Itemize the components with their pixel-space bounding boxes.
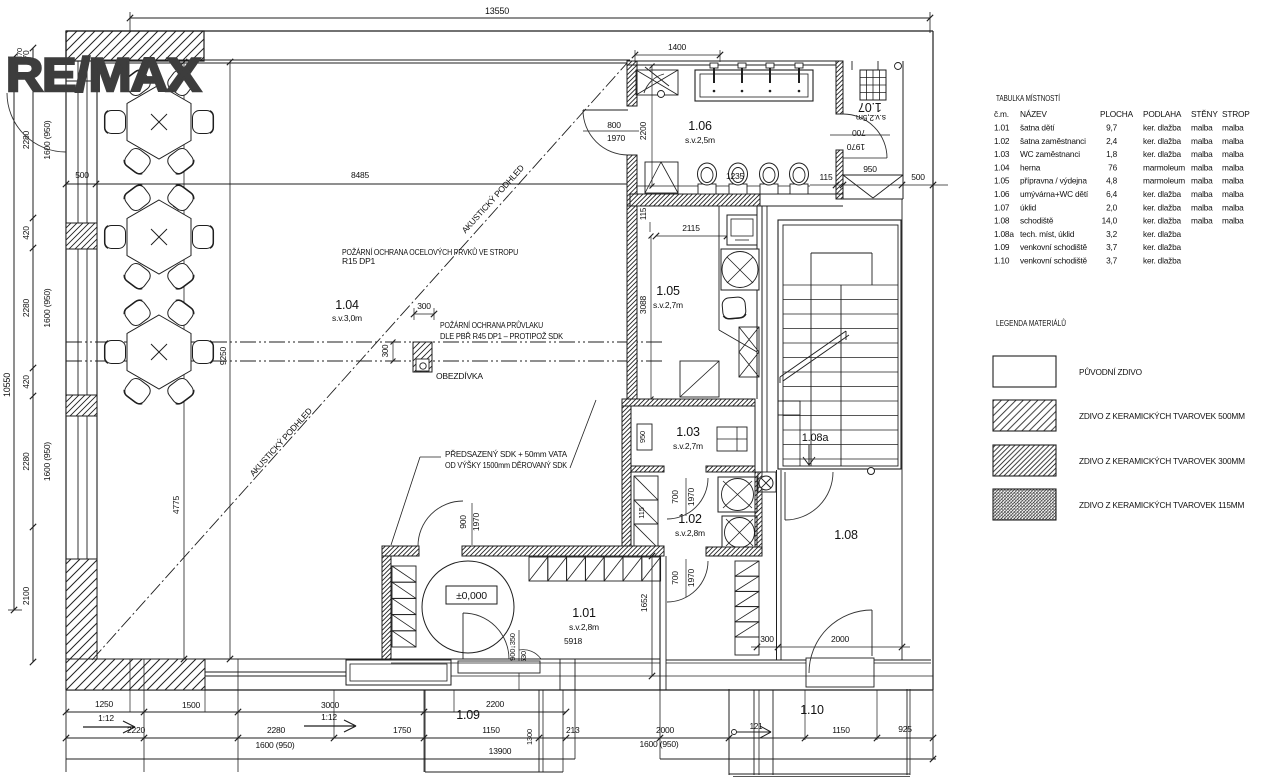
svg-text:WC zaměstnanci: WC zaměstnanci [1020,149,1080,159]
svg-text:±0,000: ±0,000 [456,590,487,602]
lockers top 1.01 [529,557,548,581]
svg-text:přípravna / výdejna: přípravna / výdejna [1020,176,1087,186]
svg-text:1,8: 1,8 [1106,149,1118,159]
dim chain left segments [32,48,34,662]
svg-text:s.v.3,0m: s.v.3,0m [332,313,362,323]
legend swatch PŮVODNÍ ZDIVO [993,356,1056,387]
door sill triangle 1.07 [843,174,903,176]
svg-text:1600 (950): 1600 (950) [42,442,52,481]
svg-text:s.v.2,5m: s.v.2,5m [685,135,715,145]
svg-text:1652: 1652 [639,593,649,612]
tap 3 [769,67,771,83]
trough sink 1.06 [695,70,813,101]
svg-text:13900: 13900 [489,746,512,756]
svg-text:1.08: 1.08 [994,216,1010,226]
svg-text:malba: malba [1222,149,1244,159]
svg-text:1.06: 1.06 [994,189,1010,199]
hex table 1 chairs [105,111,126,134]
svg-text:1.08a: 1.08a [802,432,830,444]
legend swatch ZDIVO Z KERAMICKÝCH TVAROVEK 500MM [993,400,1056,431]
dim 8485 interior [96,183,630,185]
door arc to 1.06 [583,109,628,111]
bottom wall hatch run [66,659,205,690]
svg-text:1150: 1150 [482,725,500,735]
svg-text:LEGENDA MATERIÁLŮ: LEGENDA MATERIÁLŮ [996,317,1066,328]
legend swatch ZDIVO Z KERAMICKÝCH TVAROVEK 300MM [993,445,1056,476]
room 1.06 walls [627,60,843,62]
svg-text:1.04: 1.04 [994,162,1010,172]
svg-text:PŘEDSAZENÝ SDK + 50mm VATA: PŘEDSAZENÝ SDK + 50mm VATA [445,449,567,459]
svg-text:1300: 1300 [525,729,534,745]
svg-text:1:12: 1:12 [98,713,114,723]
svg-text:900: 900 [458,515,468,529]
svg-text:1.09: 1.09 [456,708,480,722]
radiator hatch 1.08 [735,561,759,576]
svg-text:OBEZDÍVKA: OBEZDÍVKA [436,371,483,381]
svg-text:ker. dlažba: ker. dlažba [1143,189,1182,199]
dim 1400 top [635,54,720,56]
svg-text:1750: 1750 [393,725,412,735]
svg-text:šatna dětí: šatna dětí [1020,123,1055,133]
svg-text:1400: 1400 [668,42,687,52]
svg-text:1.10: 1.10 [994,256,1010,266]
svg-text:1.09: 1.09 [994,242,1010,252]
circle play 1.01 [422,561,514,653]
stair hall west wall [761,206,763,472]
desk 1.03 [717,427,747,451]
svg-text:300: 300 [760,634,774,644]
svg-text:2280: 2280 [21,452,31,471]
washing machine 2 [722,516,757,549]
svg-text:STĚNY: STĚNY [1191,109,1218,119]
svg-text:1.02: 1.02 [994,136,1010,146]
porch 1.09 box [346,660,451,685]
bottom interior line 1.04 [97,658,391,660]
door arc entrance left wall [7,93,66,152]
svg-text:213: 213 [566,725,580,735]
svg-text:malba: malba [1191,149,1213,159]
svg-text:1.05: 1.05 [656,284,680,298]
kitchen counter line [718,206,720,330]
toilet 3 [760,184,778,194]
door arc 1.07 [843,114,887,158]
svg-text:2200: 2200 [638,121,648,140]
room 1.06 bottom wall hatch [630,194,760,206]
level mark box [446,586,497,604]
svg-text:6,4: 6,4 [1106,189,1118,199]
svg-text:2,0: 2,0 [1106,202,1118,212]
svg-text:malba: malba [1222,176,1244,186]
svg-text:1250: 1250 [95,699,114,709]
svg-text:1600 (950): 1600 (950) [255,740,294,750]
svg-text:2000: 2000 [831,634,850,644]
svg-text:1970: 1970 [607,133,626,143]
svg-text:1.07: 1.07 [858,100,882,114]
leader lines sdk [420,456,441,458]
svg-text:10550: 10550 [2,373,12,397]
svg-text:s.v.2,8m: s.v.2,8m [675,528,705,538]
toilet 2 [729,184,747,194]
svg-text:2280: 2280 [21,298,31,317]
svg-text:950: 950 [863,164,877,174]
walls bottom 1.08 [666,659,931,661]
door arc 1.08 top [785,472,833,520]
table 1.05 [680,361,719,397]
svg-text:NÁZEV: NÁZEV [1020,109,1047,119]
vertical dim line 4475/4775 [183,62,185,659]
svg-text:malba: malba [1222,202,1244,212]
svg-text:300: 300 [381,344,390,357]
svg-text:malba: malba [1191,202,1213,212]
svg-text:76: 76 [1108,162,1117,172]
acoustic ceiling diagonal [92,62,628,660]
svg-text:420: 420 [21,226,31,240]
svg-text:1970: 1970 [471,512,481,531]
wall outline right [932,31,934,690]
svg-text:ker. dlažba: ker. dlažba [1143,136,1182,146]
kitchen cabinet x [739,327,759,377]
svg-text:PODLAHA: PODLAHA [1143,109,1182,119]
svg-text:tech. míst, úklid: tech. míst, úklid [1020,229,1075,239]
svg-text:9,7: 9,7 [1106,123,1118,133]
hex table 2 chairs [105,226,126,249]
svg-text:1970: 1970 [846,142,865,152]
svg-text:115: 115 [637,507,646,518]
svg-text:1.05: 1.05 [994,176,1010,186]
svg-text:malba: malba [1222,162,1244,172]
door arc 1.08 bottom [809,610,872,673]
stair landing top [811,252,872,254]
room 1.01 bottom wall lines [391,658,660,660]
svg-text:950: 950 [638,431,647,443]
svg-text:2100: 2100 [21,586,31,605]
svg-text:s.v.2,7m: s.v.2,7m [653,300,683,310]
room 1.03 top wall [622,399,755,406]
svg-text:420: 420 [21,375,31,389]
svg-text:malba: malba [1191,216,1213,226]
svg-text:1.01: 1.01 [994,123,1010,133]
svg-text:STROP: STROP [1222,109,1250,119]
stair down arrow [803,445,815,465]
shower corner 1.06 [636,70,678,95]
svg-text:1.10: 1.10 [800,703,824,717]
svg-text:malba: malba [1191,136,1213,146]
svg-text:s.v.2,8m: s.v.2,8m [569,622,599,632]
svg-text:marmoleum: marmoleum [1143,176,1185,186]
svg-text:venkovní schodiště: venkovní schodiště [1020,256,1088,266]
stair lower rect [778,401,800,415]
toilet 4 [790,184,808,194]
svg-text:ker. dlažba: ker. dlažba [1143,216,1182,226]
dim 2115 leader [649,222,651,232]
svg-text:marmoleum: marmoleum [1143,162,1185,172]
svg-text:1235: 1235 [726,171,745,181]
door arc 1.02 lower [667,561,708,602]
door arc 1.01 bottom [463,613,509,659]
obezdivka block [413,342,432,372]
svg-text:3,7: 3,7 [1106,256,1118,266]
kitchen stove [721,249,759,290]
svg-text:2280: 2280 [267,725,286,735]
svg-text:900↓350: 900↓350 [508,633,517,660]
svg-text:šatna zaměstnanci: šatna zaměstnanci [1020,136,1086,146]
wall 1.01 east [659,556,661,690]
svg-text:malba: malba [1191,162,1213,172]
svg-text:115: 115 [639,207,648,220]
wall segment 1.03 east [754,399,756,555]
svg-text:ker. dlažba: ker. dlažba [1143,229,1182,239]
svg-text:1500: 1500 [182,700,201,710]
svg-text:DLE PBŘ R45 DP1 – PROTIPOŽ SDK: DLE PBŘ R45 DP1 – PROTIPOŽ SDK [440,331,563,341]
door leaf inside 1.06 [645,67,669,86]
left wall inner lines / window [77,61,79,559]
porch 1.10 below [728,689,730,775]
porch right band [560,659,575,690]
svg-text:č.m.: č.m. [994,109,1009,119]
svg-text:14,0: 14,0 [1102,216,1118,226]
svg-text:venkovní schodiště: venkovní schodiště [1020,242,1088,252]
svg-text:1970: 1970 [686,487,696,506]
svg-text:5918: 5918 [564,636,583,646]
hex table 1 [127,85,191,159]
left wall hatch corner bottom [66,559,97,662]
top wall lines room 1.04 [97,59,630,61]
sdk wall horizontal hatched [382,546,419,556]
svg-text:700: 700 [670,490,680,504]
svg-text:malba: malba [1222,216,1244,226]
hex table 2 [127,200,191,274]
column circle [868,468,875,475]
svg-text:3000: 3000 [321,700,340,710]
svg-text:800: 800 [607,120,621,130]
room 1.01 west wall [382,556,391,659]
left wall hatch block 420 a [66,223,97,249]
room 1.03 bottom wall [631,466,664,472]
svg-text:1600 (950): 1600 (950) [42,120,52,159]
svg-text:ker. dlažba: ker. dlažba [1143,202,1182,212]
stair steps [783,284,898,286]
svg-text:schodiště: schodiště [1020,216,1054,226]
dim line 115 under toilets [636,185,810,187]
svg-text:1.01: 1.01 [572,606,596,620]
svg-text:PLOCHA: PLOCHA [1100,109,1134,119]
toilet 1 [698,184,716,194]
svg-text:malba: malba [1191,189,1213,199]
svg-text:9250: 9250 [218,346,228,365]
dim 2200 vertical line [651,66,653,186]
svg-text:ZDIVO Z KERAMICKÝCH TVAROVEK 5: ZDIVO Z KERAMICKÝCH TVAROVEK 500MM [1079,411,1245,421]
svg-text:3088: 3088 [638,295,648,314]
door arc 1.03-1.02 [667,478,708,519]
sink grid 1.07 [860,70,886,100]
lockers west 1.01 [392,566,416,582]
step box door 1.01 [458,661,540,673]
svg-text:TABULKA MÍSTNOSTÍ: TABULKA MÍSTNOSTÍ [996,93,1060,103]
dim 1652 rot [651,556,653,676]
bottom dim ticks row1 [63,709,69,715]
serving hatch x [719,330,757,352]
kitchen sink unit [727,215,757,245]
band vertical marks [129,659,131,690]
box 950 rot [637,424,652,450]
svg-text:R15 DP1: R15 DP1 [342,256,376,266]
vertical dim line 9250 [229,62,231,659]
svg-text:3,7: 3,7 [1106,242,1118,252]
svg-text:2115: 2115 [682,223,700,233]
wall 1.08 west [776,470,778,660]
wall outline top [66,30,933,32]
svg-text:malba: malba [1222,123,1244,133]
shaft box [758,472,776,492]
wall outline left [65,31,67,690]
svg-text:300: 300 [417,301,431,311]
svg-text:1:12: 1:12 [321,712,337,722]
dim 300 2000 row [751,646,910,648]
room 1.03 west wall [622,406,631,555]
cabinet 1.06 bottom-left [645,162,678,193]
svg-text:1.08a: 1.08a [994,229,1014,239]
svg-text:700: 700 [670,571,680,585]
svg-text:herna: herna [1020,162,1041,172]
dim chain 13550 top [130,17,930,19]
svg-text:2200: 2200 [486,699,505,709]
hex table 3 chairs [105,341,126,364]
dim chain left 10550 [13,57,15,610]
svg-text:2000: 2000 [656,725,675,735]
svg-text:ZDIVO Z KERAMICKÝCH TVAROVEK 1: ZDIVO Z KERAMICKÝCH TVAROVEK 115MM [1079,500,1244,510]
tap 2 [741,67,743,83]
svg-text:malba: malba [1191,123,1213,133]
svg-text:ZDIVO Z KERAMICKÝCH TVAROVEK 3: ZDIVO Z KERAMICKÝCH TVAROVEK 300MM [1079,456,1245,466]
svg-text:8485: 8485 [351,170,370,180]
stair 1.08a outer box [778,220,901,469]
svg-text:1150: 1150 [832,725,850,735]
svg-text:1.07: 1.07 [994,202,1010,212]
svg-text:500: 500 [911,172,925,182]
bottom dim ticks row2 [63,735,69,741]
tap 4 [798,67,800,83]
svg-text:malba: malba [1222,189,1244,199]
svg-text:2,4: 2,4 [1106,136,1118,146]
kitchen chair [722,297,747,320]
svg-text:úklid: úklid [1020,202,1037,212]
svg-text:umývárna+WC dětí: umývárna+WC dětí [1020,189,1089,199]
fan symbol [759,476,773,490]
svg-text:ker. dlažba: ker. dlažba [1143,256,1182,266]
stair railing diagonal [780,331,846,377]
svg-text:121: 121 [750,722,763,731]
svg-text:1.06: 1.06 [688,119,712,133]
hex table 3 [127,315,191,389]
svg-text:1.02: 1.02 [678,512,702,526]
svg-text:4775: 4775 [171,495,181,514]
svg-text:4,8: 4,8 [1106,176,1118,186]
door arc 1.01 top [418,501,463,546]
svg-text:ker. dlažba: ker. dlažba [1143,149,1182,159]
threshold box 1.10 door [806,658,874,687]
svg-text:1.04: 1.04 [335,298,359,312]
washing machine 1 [718,477,757,512]
wall right inner [901,199,903,660]
left wall hatch block 420 b [66,395,97,416]
svg-text:1600 (950): 1600 (950) [639,739,678,749]
wall 1.05 west hatched [627,206,637,399]
svg-text:2220: 2220 [127,725,146,735]
wall 1.04 east hatched [627,61,637,106]
bottom band lines [205,671,348,673]
svg-text:malba: malba [1222,136,1244,146]
svg-text:1600 (950): 1600 (950) [42,288,52,327]
svg-text:ker. dlažba: ker. dlažba [1143,242,1182,252]
dim 500 left wall [66,183,96,185]
svg-text:1970: 1970 [686,568,696,587]
porch 1.09 below [424,690,426,772]
svg-text:s.v.2,7m: s.v.2,7m [673,441,703,451]
svg-text:RE/MAX: RE/MAX [6,48,201,101]
svg-text:POŽÁRNÍ OCHRANA PRŮVLAKU: POŽÁRNÍ OCHRANA PRŮVLAKU [440,319,543,330]
svg-text:115: 115 [820,172,833,182]
wall top-left hatched 500 [66,31,204,61]
svg-text:s.v.2,5m: s.v.2,5m [856,113,886,123]
room 1.07 walls [902,61,904,199]
svg-text:1.03: 1.03 [994,149,1010,159]
svg-text:1.03: 1.03 [676,425,700,439]
legend swatch ZDIVO Z KERAMICKÝCH TVAROVEK 115MM [993,489,1056,520]
section dash-dot lines [66,341,664,343]
svg-text:700: 700 [852,128,866,138]
svg-text:13550: 13550 [485,6,509,16]
tap 1 [713,67,715,83]
svg-text:1.08: 1.08 [834,528,858,542]
svg-text:500: 500 [75,170,89,180]
wall outline bottom [66,689,933,691]
bottom dim lines [65,690,67,772]
svg-text:PŮVODNÍ ZDIVO: PŮVODNÍ ZDIVO [1079,366,1143,377]
svg-text:OD VÝŠKY 1500mm DĚROVANÝ SDK: OD VÝŠKY 1500mm DĚROVANÝ SDK [445,460,567,470]
svg-text:ker. dlažba: ker. dlažba [1143,123,1182,133]
svg-text:70: 70 [15,48,24,56]
stair verticals [810,285,812,466]
room 1.02 lockers west [634,476,658,500]
svg-text:3,2: 3,2 [1106,229,1118,239]
svg-text:malba: malba [1191,176,1213,186]
